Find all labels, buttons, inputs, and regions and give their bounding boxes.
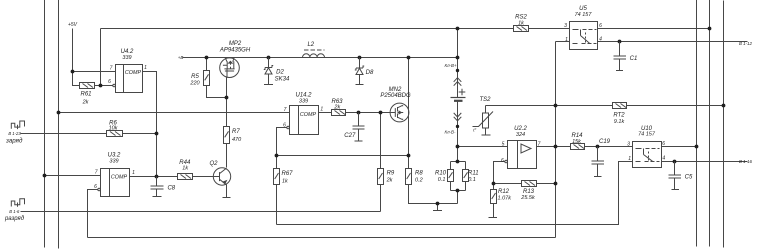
svg-text:15k: 15k: [572, 139, 581, 145]
svg-text:SK34: SK34: [275, 77, 290, 83]
mux U10: [633, 142, 662, 168]
wire U5 pin1 entry: [556, 41, 570, 43]
svg-text:COMP: COMP: [125, 70, 142, 76]
pulse glyph zaryad: [11, 121, 24, 129]
MOSFET MN2: [390, 103, 409, 122]
node dot R5 top: [205, 56, 209, 60]
wire top rail: [101, 28, 710, 30]
svg-text:заряд: заряд: [5, 137, 23, 144]
wire R63 to MN2 gate: [346, 112, 391, 114]
svg-text:7: 7: [110, 66, 113, 72]
svg-text:6: 6: [662, 141, 665, 147]
wire U14.2 pin7 long: [59, 112, 290, 114]
svg-text:В 1-12: В 1-12: [739, 41, 752, 46]
wire U4.2 pin7: [73, 71, 116, 73]
svg-text:6: 6: [599, 23, 602, 29]
transistor Q2: [213, 168, 230, 185]
svg-text:74 157: 74 157: [575, 12, 593, 18]
wire MN2 drain column: [408, 58, 410, 169]
resistor R67: [274, 169, 280, 185]
resistor R8: [406, 169, 412, 185]
svg-text:R5: R5: [191, 74, 199, 80]
svg-text:В 1-6: В 1-6: [9, 209, 20, 214]
ground bar R8 node: [433, 210, 442, 212]
svg-text:1: 1: [132, 170, 135, 176]
svg-text:1k: 1k: [518, 21, 524, 27]
node dot C19: [596, 145, 600, 149]
svg-text:324: 324: [516, 132, 525, 138]
svg-text:Q2: Q2: [209, 161, 218, 167]
node dot TS2 RT2: [554, 104, 558, 108]
ground bar R12: [489, 217, 498, 219]
capacitor C8: [151, 177, 164, 197]
node dot U10 pin6 bus: [695, 145, 699, 149]
svg-text:COMP: COMP: [111, 175, 128, 181]
svg-text:R67: R67: [282, 171, 294, 177]
resistor R44: [178, 174, 193, 180]
svg-text:C19: C19: [599, 139, 611, 145]
resistor RT2: [613, 103, 627, 109]
node dot C5: [673, 160, 677, 164]
comparator U3.2: [98, 169, 130, 197]
svg-text:2k: 2k: [82, 100, 89, 106]
wire battery column top: [457, 29, 459, 98]
svg-text:470: 470: [232, 137, 242, 143]
node dot R12 top: [492, 182, 496, 186]
node dot gnd R8: [436, 202, 440, 206]
wire MP2 gate column: [226, 78, 228, 168]
svg-text:L2: L2: [307, 42, 314, 48]
svg-text:R9: R9: [387, 171, 395, 177]
ground bar Q2 emitter: [223, 197, 231, 199]
wire R5 branch: [207, 58, 227, 98]
svg-text:339: 339: [122, 55, 131, 61]
node dot R10R11 bottom: [456, 189, 460, 193]
svg-text:C8: C8: [167, 185, 175, 191]
svg-text:разряд: разряд: [4, 216, 25, 222]
node dot C8: [155, 175, 159, 179]
node dot RT2 bus: [722, 104, 726, 108]
node dot top rail battery: [456, 27, 460, 31]
wire TS2 drop: [485, 106, 487, 136]
svg-text:R12: R12: [498, 189, 510, 195]
svg-text:1: 1: [144, 65, 147, 71]
node dot C1: [618, 40, 622, 44]
wire razryad input line: [21, 211, 381, 213]
wire R67 column: [276, 156, 278, 225]
svg-text:6: 6: [283, 122, 286, 128]
resistor R7: [224, 127, 230, 144]
node dot R10R11 top: [456, 160, 460, 164]
svg-text:1k: 1k: [182, 165, 188, 171]
bus line right A: [696, 0, 698, 247]
svg-text:1: 1: [320, 107, 323, 113]
diode D2 schottky: [264, 58, 273, 85]
svg-text:7: 7: [95, 170, 98, 176]
node dot D8: [358, 56, 362, 60]
wire U10 pin6 out: [662, 146, 697, 148]
diode D8: [355, 58, 364, 85]
node dot MN2 drain rail: [407, 56, 411, 60]
svg-text:339: 339: [299, 98, 308, 104]
svg-text:1.07k: 1.07k: [498, 196, 512, 202]
wire U2.2 pin7 to R14: [537, 146, 571, 148]
svg-text:7: 7: [284, 107, 287, 113]
svg-text:7: 7: [538, 141, 541, 147]
svg-text:R10: R10: [435, 171, 447, 177]
svg-text:AP9435GH: AP9435GH: [219, 47, 251, 53]
node dot U2.2 out: [554, 145, 558, 149]
svg-text:COMP: COMP: [300, 112, 317, 118]
wire R14 to C19 to U10 pin3: [585, 146, 633, 148]
svg-text:В 1-23: В 1-23: [8, 131, 21, 136]
resistor R12: [491, 190, 497, 204]
svg-text:6: 6: [501, 158, 504, 164]
svg-text:MP2: MP2: [229, 41, 242, 47]
bus line right C: [723, 1, 725, 248]
svg-text:1k: 1k: [282, 178, 288, 184]
svg-text:D8: D8: [366, 70, 374, 76]
wire +B rail: [183, 57, 458, 59]
svg-text:D2: D2: [276, 70, 284, 76]
bus line left A: [44, 0, 46, 248]
wire mid rail: [277, 162, 633, 225]
node dot R67 top: [275, 154, 279, 158]
svg-text:0.2: 0.2: [415, 177, 423, 183]
wire bottom rail: [88, 237, 556, 239]
svg-text:0.1: 0.1: [438, 177, 446, 183]
capacitor C1: [614, 42, 627, 71]
node dot battery rail: [456, 56, 460, 60]
wire R12 leads: [493, 184, 495, 218]
wire battery gnd drop: [457, 191, 459, 204]
svg-text:Кл-В-: Кл-В-: [445, 129, 456, 134]
wire gnd stem R8 node: [437, 204, 439, 211]
wire +5V drop: [72, 29, 74, 72]
svg-text:2k: 2k: [386, 177, 393, 183]
resistor R6: [107, 131, 123, 137]
node dot bus U3.2 pin7: [43, 174, 47, 178]
node dot R8 top: [407, 154, 411, 158]
wire TS2 row: [486, 105, 724, 107]
node dot Kl-B- contact: [456, 125, 459, 128]
wire zaryad input line: [21, 133, 157, 135]
comparator U4.2: [113, 65, 143, 93]
svg-text:Кл-В+: Кл-В+: [444, 63, 456, 68]
wire U14.2 pin1 to R63: [319, 112, 332, 114]
svg-text:+5V: +5V: [68, 22, 78, 28]
svg-text:6: 6: [94, 184, 97, 190]
svg-text:t°: t°: [473, 128, 476, 133]
svg-text:C27: C27: [344, 133, 356, 139]
bus line right B: [709, 0, 711, 247]
wire node row 155: [277, 155, 409, 157]
svg-text:9.1k: 9.1k: [614, 119, 625, 125]
svg-text:R11: R11: [468, 171, 479, 177]
resistor R13: [522, 181, 537, 187]
capacitor C19: [592, 147, 605, 177]
bus line left B: [58, 0, 60, 249]
svg-text:R7: R7: [232, 129, 240, 135]
svg-text:В 1-16: В 1-16: [739, 159, 752, 164]
svg-text:C5: C5: [685, 174, 693, 180]
connector chevrons Kl-B+: [454, 78, 462, 86]
svg-text:0.1: 0.1: [468, 177, 476, 183]
svg-text:+B: +B: [178, 55, 184, 60]
node dot top rail bus: [708, 27, 712, 31]
resistor R11: [463, 170, 469, 182]
svg-text:R8: R8: [415, 171, 423, 177]
wire U3.2 pin6 drop: [88, 190, 99, 238]
svg-text:1: 1: [565, 37, 568, 43]
pulse glyph razryad: [11, 199, 24, 207]
svg-text:10k: 10k: [109, 126, 118, 132]
wire razryad riser R9: [380, 113, 382, 212]
svg-text:3: 3: [627, 141, 630, 147]
node dot +5V: [71, 70, 75, 74]
node dot D2: [267, 56, 271, 60]
wire U3.2 pin7: [45, 175, 101, 177]
wire U14.2 pin6 loop: [277, 128, 288, 156]
connector chevrons Kl-B-: [454, 113, 462, 121]
svg-text:C1: C1: [630, 56, 638, 62]
wire top-left corner down: [100, 29, 102, 86]
node dot gate riser: [379, 111, 383, 115]
resistor R5: [204, 71, 210, 86]
resistor R63: [332, 110, 346, 116]
node dot Kl-B- net: [456, 145, 460, 149]
inductor L2: [303, 50, 325, 58]
capacitor C5: [669, 162, 682, 190]
svg-text:P2504BDG: P2504BDG: [380, 93, 411, 99]
resistor RS2: [514, 26, 529, 32]
wire R8 bottom: [409, 185, 458, 204]
svg-text:339: 339: [109, 158, 118, 164]
svg-text:4: 4: [599, 36, 602, 42]
wire U10 pin4 out: [662, 161, 748, 163]
svg-text:RT2: RT2: [613, 113, 625, 119]
wire R10 R11 parallel frame: [451, 162, 466, 191]
svg-text:RS2: RS2: [515, 14, 527, 20]
node dot MP2 gate: [225, 96, 229, 100]
mux U5: [570, 22, 598, 50]
wire U2.2 pin6 loop: [494, 162, 505, 184]
node dot R6 out: [155, 132, 159, 136]
node dot Kl-B+ contact: [456, 69, 459, 72]
capacitor C27: [353, 113, 365, 142]
svg-text:25.5k: 25.5k: [520, 195, 535, 201]
svg-text:TS2: TS2: [479, 97, 491, 103]
svg-text:3: 3: [564, 23, 567, 29]
node dot C27: [357, 111, 361, 115]
node dot R61 right: [99, 84, 103, 88]
wire battery column bottom: [457, 102, 459, 162]
wire Q2 emitter: [226, 185, 228, 198]
svg-text:220: 220: [189, 80, 200, 86]
resistor R14: [571, 144, 585, 150]
battery cell GB: [451, 89, 466, 101]
svg-text:6: 6: [108, 79, 111, 85]
wire long vertical U5 pin1: [555, 42, 557, 238]
wire U3.2 pin1 / R44 row: [130, 176, 214, 178]
opamp U2.2: [505, 141, 537, 169]
wire Kl-B- to U2.2 pin5: [458, 146, 508, 148]
svg-text:74 157: 74 157: [638, 132, 656, 138]
resistor R61: [80, 83, 95, 89]
resistor R10: [448, 170, 454, 182]
node dot R13 right: [554, 182, 558, 186]
resistor R9: [378, 169, 384, 185]
comparator U14.2: [287, 106, 319, 135]
node dot bus pin7: [57, 111, 61, 115]
MOSFET MP2: [220, 58, 240, 78]
wire R61 branch: [73, 72, 113, 86]
ground bar TS2: [482, 134, 491, 136]
svg-text:4: 4: [662, 156, 665, 162]
svg-text:5: 5: [502, 141, 505, 147]
thermistor TS2: [473, 112, 494, 129]
wire U4.2 pin1 output: [143, 72, 157, 177]
svg-text:R61: R61: [80, 92, 91, 98]
wire R13 row: [494, 183, 556, 185]
wire U5 pin4 out: [598, 41, 748, 43]
svg-text:1: 1: [628, 156, 631, 162]
svg-text:2k: 2k: [333, 105, 340, 111]
